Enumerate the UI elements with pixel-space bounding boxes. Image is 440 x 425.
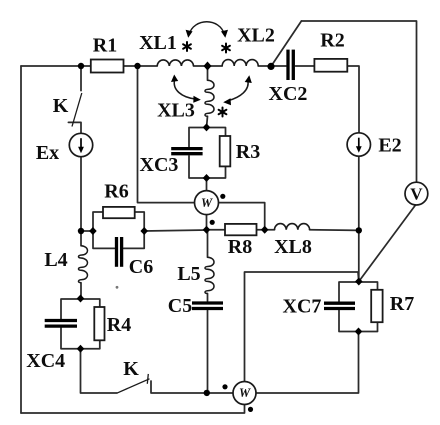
wire XL2 mid node to XL3 bbox=[207, 66, 209, 80]
junction diamond R8 right bbox=[261, 226, 269, 234]
wire R2 to E2 branch bbox=[347, 66, 359, 133]
junction node XL8 right bbox=[356, 227, 362, 233]
voltmeter V bbox=[405, 182, 428, 205]
inductor XL2 bbox=[222, 60, 258, 66]
wire W2 voltage coil to node bbox=[245, 272, 359, 381]
wire K1 branch from top bbox=[80, 66, 82, 91]
wire XL3 to XC3 node bbox=[207, 116, 208, 127]
stray dot bbox=[116, 286, 119, 289]
wire XL1 to XL2 bbox=[194, 65, 223, 67]
resistor R1 bbox=[91, 60, 124, 73]
source E2 bbox=[347, 133, 370, 156]
wire XC3R3 block outline bbox=[189, 128, 226, 179]
svg-text:R8: R8 bbox=[228, 236, 252, 258]
svg-text:XL3: XL3 bbox=[157, 100, 195, 122]
wire bottom outer bbox=[21, 405, 245, 413]
svg-text:XL2: XL2 bbox=[237, 25, 275, 47]
junction diamond W1 bottom bbox=[203, 226, 211, 234]
polarity dot W1 right bbox=[220, 194, 225, 199]
inductor XL3 bbox=[205, 80, 214, 116]
inductor L5 bbox=[205, 257, 214, 293]
asterisk XL2 bbox=[222, 44, 230, 53]
svg-text:R3: R3 bbox=[236, 141, 260, 163]
asterisk XL3 bbox=[219, 108, 227, 117]
svg-text:XC3: XC3 bbox=[140, 154, 179, 176]
junction diamond XC7 top bbox=[355, 278, 363, 286]
wattmeter W1 bbox=[195, 191, 219, 215]
svg-text:C6: C6 bbox=[129, 256, 153, 278]
wire XL8 to E2 vertical bbox=[310, 229, 359, 232]
junction diamond XC7 bottom bbox=[355, 328, 363, 336]
svg-text:XC7: XC7 bbox=[283, 296, 322, 318]
junction diamond R6 block left bbox=[89, 227, 97, 235]
switch K1 bbox=[72, 93, 82, 127]
svg-text:Ex: Ex bbox=[36, 142, 59, 164]
inductor L4 bbox=[78, 246, 87, 283]
capacitor C6 bbox=[117, 237, 122, 267]
junction node Ex line / R6 stub bbox=[78, 228, 84, 234]
wire E2 to node XC7 bbox=[358, 156, 360, 281]
junction node R1 right bbox=[134, 63, 140, 69]
svg-text:K: K bbox=[123, 358, 139, 380]
inductor XL1 bbox=[157, 60, 193, 66]
inductor XL8 bbox=[275, 224, 310, 230]
polarity dot W2 bottom bbox=[248, 407, 253, 412]
wire XC4R4 block outline bbox=[61, 299, 100, 349]
wire XC7R7 block outline bbox=[339, 282, 378, 332]
wire XC2 to R2 bbox=[296, 65, 315, 67]
wire XC3 node to W1 bbox=[206, 178, 208, 191]
junction diamond XC4 bottom bbox=[77, 345, 85, 353]
svg-text:R7: R7 bbox=[390, 293, 414, 315]
wire top-left horizontal bbox=[21, 65, 91, 67]
svg-text:XC2: XC2 bbox=[269, 83, 308, 105]
wire junction to L5 bbox=[207, 230, 209, 257]
asterisk XL1 bbox=[183, 42, 191, 51]
junction node bottom L5 bbox=[204, 390, 210, 396]
wire XL2 to XC2 bbox=[258, 65, 286, 67]
svg-text:R2: R2 bbox=[320, 30, 344, 52]
svg-text:XL1: XL1 bbox=[139, 32, 177, 54]
svg-text:R4: R4 bbox=[107, 314, 131, 336]
wire Ex to L4 bbox=[80, 157, 82, 246]
wire V to node XC7 diagonal bbox=[359, 205, 416, 282]
capacitor XC2 bbox=[288, 50, 293, 80]
junction diamond R6 block right bbox=[140, 227, 148, 235]
junction diamond XL1-XL2 mid bbox=[204, 62, 212, 71]
svg-text:W: W bbox=[239, 386, 251, 400]
wire R1 junction down and to W1 bbox=[138, 66, 195, 203]
resistor R4 bbox=[94, 307, 104, 340]
resistor R7 bbox=[371, 290, 382, 322]
coupling arrow XL1-XL3 bbox=[174, 80, 195, 100]
svg-text:W: W bbox=[201, 196, 213, 210]
wire left outer vertical bbox=[20, 66, 22, 413]
wire L4 to node R4 block bbox=[80, 283, 82, 299]
wire R8 to diamond bbox=[257, 229, 275, 231]
capacitor C5 bbox=[192, 303, 223, 309]
resistor R3 bbox=[220, 136, 231, 166]
svg-text:C5: C5 bbox=[168, 295, 192, 317]
wire K1 contact to Ex bbox=[68, 122, 81, 133]
svg-text:L4: L4 bbox=[44, 249, 67, 271]
wire R6C6 block outline bbox=[93, 212, 144, 248]
wire R6C6 block to L5 junction bbox=[144, 230, 207, 231]
junction node XL2 right bbox=[267, 63, 274, 70]
svg-text:XC4: XC4 bbox=[26, 350, 65, 372]
wire W1 right down to R8 line bbox=[218, 203, 264, 230]
wire C5 down to bottom junction bbox=[207, 310, 209, 393]
svg-text:R6: R6 bbox=[104, 181, 128, 203]
polarity dot W1 bottom bbox=[210, 220, 215, 225]
wire R1 to XL1 bbox=[124, 65, 158, 67]
coupling arrow XL2-XL3 bbox=[229, 81, 249, 101]
wattmeter W2 bbox=[233, 382, 256, 405]
wire L5 to C5 bbox=[207, 294, 209, 302]
wire XC4 node down to K2 bbox=[81, 349, 117, 393]
wire W2 right to XC7 bottom bbox=[257, 332, 359, 394]
junction diamond XC3 top bbox=[203, 123, 211, 131]
switch K2 bbox=[117, 374, 150, 393]
svg-text:K: K bbox=[53, 95, 69, 117]
polarity dot W2 left bbox=[222, 384, 227, 389]
wire K2 contact to W2 bbox=[151, 381, 233, 393]
resistor R6 bbox=[103, 207, 135, 218]
capacitor XC3 bbox=[171, 149, 202, 154]
capacitor XC4 bbox=[45, 321, 77, 327]
capacitor XC7 bbox=[324, 303, 355, 308]
wire stub to R6C6 block bbox=[81, 230, 93, 232]
wire diagonal to top right bbox=[271, 21, 301, 66]
coupling arc XL1-XL2 bbox=[189, 22, 225, 35]
resistor R8 bbox=[225, 224, 257, 235]
svg-text:V: V bbox=[410, 185, 423, 204]
source Ex bbox=[69, 133, 92, 156]
svg-text:R1: R1 bbox=[93, 35, 117, 57]
wire W1 bottom to junction bbox=[206, 215, 208, 230]
svg-text:XL8: XL8 bbox=[274, 236, 312, 258]
resistor R2 bbox=[314, 59, 347, 72]
junction diamond XC4 top bbox=[77, 295, 85, 303]
junction node R1 left bbox=[78, 63, 84, 69]
svg-text:E2: E2 bbox=[378, 135, 401, 157]
junction diamond XC3 bottom bbox=[203, 174, 211, 182]
wire junction to R8 bbox=[207, 229, 226, 231]
svg-text:L5: L5 bbox=[177, 263, 200, 285]
wire top-right to V bbox=[301, 21, 416, 182]
